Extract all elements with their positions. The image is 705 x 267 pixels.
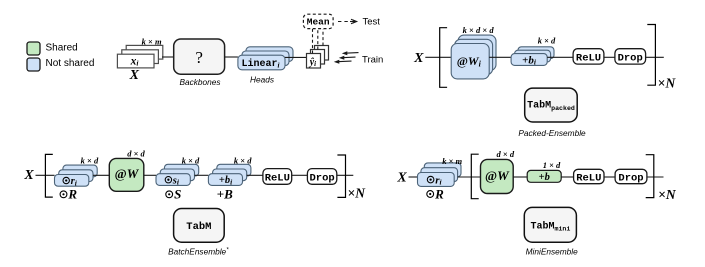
svg-text:k × d: k × d: [182, 156, 200, 166]
svg-text:R: R: [67, 187, 77, 202]
wire b_i to relu batch: [247, 174, 263, 176]
node X packed: [413, 51, 424, 66]
label xN packed: [658, 75, 677, 90]
svg-text:BatchEnsemble*: BatchEnsemble*: [168, 246, 229, 256]
wire X to bracket: [425, 56, 451, 58]
svg-text:k × d: k × d: [234, 156, 252, 166]
b_i stack batch: [208, 164, 251, 186]
mean box: [303, 14, 333, 28]
svg-text:×N: ×N: [658, 187, 677, 202]
right bracket mini: [646, 155, 654, 198]
wire relu to drop batch: [292, 174, 308, 176]
label Test: [363, 17, 381, 28]
label R below r_i: [60, 187, 77, 202]
svg-text:Not shared: Not shared: [46, 58, 95, 69]
svg-text:@W: @W: [485, 168, 510, 183]
label d x d batch: [127, 148, 145, 158]
svg-text:si: si: [172, 175, 180, 186]
label k x d over r_i: [81, 156, 99, 166]
wire +b to relu mini: [561, 176, 573, 178]
svg-text:Test: Test: [363, 17, 381, 28]
dashed arrow mean to test: [338, 19, 357, 24]
heads stack Linear_i: [238, 47, 293, 70]
wire r_i to @W batch: [93, 174, 109, 176]
label S below s_i: [166, 187, 182, 202]
right bracket batch: [337, 155, 345, 197]
svg-text:@Wi: @Wi: [457, 54, 482, 68]
legend shared swatch: [27, 42, 40, 55]
svg-text:×N: ×N: [658, 75, 677, 90]
svg-text:TabM: TabM: [186, 221, 211, 233]
label R below r_i mini: [427, 186, 444, 201]
relu box packed: [573, 49, 604, 65]
drop box packed: [615, 49, 646, 65]
svg-text:+B: +B: [217, 187, 233, 202]
tabm packed box: [525, 88, 578, 122]
label Backbones: [179, 77, 220, 87]
svg-text:k × d × d: k × d × d: [463, 25, 495, 35]
svg-text:+bi: +bi: [219, 175, 233, 186]
svg-text:ReLU: ReLU: [265, 172, 290, 184]
left bracket mini: [471, 154, 478, 199]
label xN mini: [658, 187, 677, 202]
svg-text:Shared: Shared: [46, 42, 78, 53]
left bracket packed: [440, 28, 447, 88]
label d x d mini: [497, 149, 515, 159]
wire backbone to heads: [225, 56, 238, 58]
wire X to r_i mini: [409, 176, 418, 178]
label xN batch: [348, 185, 367, 200]
wire b_i to relu packed: [547, 56, 573, 58]
svg-text:Packed-Ensemble: Packed-Ensemble: [518, 128, 586, 138]
svg-text:d × d: d × d: [497, 149, 515, 159]
left bracket batch: [45, 154, 52, 197]
svg-text:Mean: Mean: [307, 17, 330, 28]
wire drop through bracket mini: [647, 176, 664, 178]
label k x m over r_i mini: [442, 156, 462, 166]
label BatchEnsemble: [168, 246, 229, 256]
wire @W to +b mini: [513, 176, 527, 178]
bias box +b mini: [527, 170, 561, 183]
label Packed-Ensemble: [518, 128, 586, 138]
svg-text:X: X: [396, 171, 407, 186]
s_i stack batch: [156, 164, 199, 186]
svg-text:k × m: k × m: [142, 37, 162, 47]
wire @W to s_i: [144, 174, 156, 176]
label k x d packed: [538, 36, 556, 46]
r_i stack mini: [418, 163, 462, 187]
svg-text:X: X: [413, 51, 424, 66]
svg-text:Train: Train: [362, 55, 383, 66]
wire relu to drop packed: [604, 56, 615, 58]
label 1 x d mini: [543, 160, 561, 170]
legend shared text: [46, 42, 78, 53]
svg-text:S: S: [174, 187, 181, 202]
svg-text:X: X: [23, 168, 34, 183]
bias stack +b_i packed: [511, 47, 554, 67]
wire s_i to b_i batch: [195, 174, 209, 176]
label Heads: [250, 74, 274, 84]
label MiniEnsemble: [526, 246, 578, 256]
svg-text:Drop: Drop: [309, 172, 334, 184]
relu box mini: [574, 169, 604, 184]
svg-text:?: ?: [195, 48, 203, 67]
label k x d x d: [463, 25, 495, 35]
label k x d over s_i: [182, 156, 200, 166]
prediction stack y_i: [307, 46, 329, 69]
backbone box ?: [174, 39, 225, 74]
svg-text:ReLU: ReLU: [576, 52, 601, 64]
tabm mini box: [524, 207, 576, 242]
label Train: [362, 55, 383, 66]
weight box @W batch: [109, 158, 144, 191]
relu box batch: [263, 169, 292, 185]
label k x d over b_i batch: [234, 156, 252, 166]
legend not-shared text: [46, 58, 95, 69]
svg-text:k × d: k × d: [81, 156, 99, 166]
label k x m above X stack: [142, 37, 162, 47]
r_i stack batch: [55, 165, 98, 187]
svg-text:×N: ×N: [348, 185, 367, 200]
wire X stack to backbone: [162, 56, 174, 58]
right bracket packed: [647, 25, 655, 86]
svg-text:R: R: [434, 186, 444, 201]
label +B below b_i: [217, 187, 233, 202]
wire drop through bracket batch: [337, 174, 354, 176]
svg-text:@W: @W: [115, 166, 140, 181]
svg-text:Drop: Drop: [618, 172, 643, 184]
dashed line prediction to mean 1: [312, 29, 314, 54]
svg-text:d × d: d × d: [127, 148, 145, 158]
label X below stack: [129, 68, 140, 83]
dashed line prediction to mean 3: [322, 29, 324, 46]
svg-text:Drop: Drop: [618, 52, 643, 64]
drop box batch: [307, 169, 336, 185]
legend not-shared swatch: [27, 58, 40, 71]
tabm box batch: [174, 209, 225, 243]
dashed line prediction to mean 2: [317, 29, 319, 50]
node X mini: [396, 171, 407, 186]
node X batch: [23, 168, 34, 183]
wire @W_i to b_i: [489, 56, 511, 58]
svg-text:1 × d: 1 × d: [543, 160, 561, 170]
wire drop through bracket packed: [646, 56, 664, 58]
svg-text:k × d: k × d: [538, 36, 556, 46]
wire X to bracket batch: [36, 174, 55, 176]
weight box @W mini: [481, 159, 514, 193]
svg-text:Heads: Heads: [250, 74, 274, 84]
weight stack @W_i: [451, 35, 496, 79]
drop box mini: [615, 169, 647, 184]
input stack X (boxes x_i): [117, 45, 162, 68]
svg-text:Backbones: Backbones: [179, 77, 220, 87]
wire r_i through bracket mini: [458, 176, 481, 178]
wire heads to predictions: [285, 56, 307, 58]
wire relu to drop mini: [604, 176, 615, 178]
train arrows: [334, 51, 359, 64]
svg-text:k × m: k × m: [442, 156, 462, 166]
svg-text:Lineari: Lineari: [241, 58, 279, 70]
svg-text:X: X: [129, 68, 140, 83]
svg-text:MiniEnsemble: MiniEnsemble: [526, 246, 578, 256]
svg-text:+b: +b: [539, 172, 550, 183]
svg-text:ReLU: ReLU: [576, 172, 601, 184]
